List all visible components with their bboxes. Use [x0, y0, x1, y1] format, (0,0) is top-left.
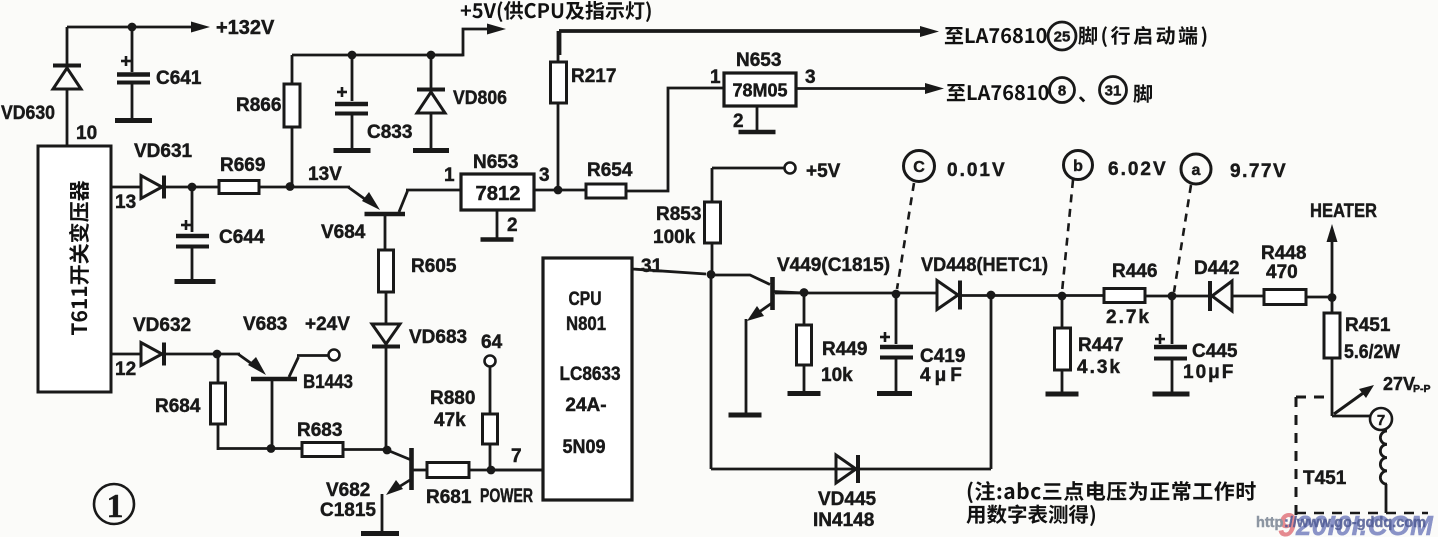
- label C641: [156, 68, 202, 89]
- label R669: [220, 155, 265, 176]
- label C1815 (V682): [320, 500, 376, 521]
- svg-text:V449(C1815): V449(C1815): [777, 255, 890, 276]
- svg-text:N801: N801: [566, 314, 606, 335]
- svg-text:+24V: +24V: [305, 314, 350, 335]
- resistor R866: [284, 55, 300, 186]
- svg-text:R853: R853: [656, 204, 701, 225]
- svg-text:R684: R684: [155, 396, 201, 417]
- dashed line b: [1062, 180, 1073, 292]
- svg-text:1: 1: [444, 165, 455, 186]
- label to LA76810 line2: [947, 84, 1049, 101]
- ground C644: [175, 279, 216, 284]
- label R449: [821, 339, 867, 386]
- resistor R217: [551, 31, 567, 190]
- label 0.01V: [947, 160, 1007, 181]
- node junction VD632: [213, 350, 222, 359]
- capacitor C833: [335, 55, 368, 148]
- svg-text:5N09: 5N09: [563, 437, 606, 458]
- svg-text:6.02V: 6.02V: [1108, 159, 1168, 180]
- svg-text:VD806: VD806: [453, 88, 507, 109]
- capacitor C641: [117, 27, 150, 118]
- wire 7812 out: [534, 189, 586, 192]
- svg-text:R683: R683: [297, 420, 342, 441]
- wire R448 out: [1306, 296, 1333, 299]
- transformer T611: [38, 146, 111, 392]
- ground C641: [115, 118, 152, 123]
- resistor R853: [705, 202, 721, 274]
- label N653 (78M05): [736, 50, 781, 71]
- svg-text:N653: N653: [736, 50, 781, 71]
- svg-text:1: 1: [107, 488, 124, 525]
- label R451: [1344, 315, 1400, 363]
- svg-text:10k: 10k: [821, 365, 853, 386]
- node junction VD683/R683/V682: [383, 446, 392, 455]
- resistor R684: [211, 354, 226, 450]
- punct dun: [1079, 96, 1085, 102]
- label C419: [920, 346, 966, 386]
- pin 7 label: [511, 446, 522, 467]
- label C445: [1183, 341, 1238, 383]
- node junction C833 top: [348, 51, 357, 60]
- svg-text:9.77V: 9.77V: [1230, 161, 1287, 182]
- wire VD806 to ground: [430, 113, 433, 148]
- pin 2 ground 78M05: [733, 106, 776, 132]
- label VD683: [409, 327, 467, 348]
- svg-text:R681: R681: [426, 487, 472, 508]
- svg-text:13: 13: [115, 192, 136, 213]
- node junction 7812 out: [554, 186, 563, 195]
- wire feedback bottom: [711, 468, 991, 471]
- svg-text:a: a: [1192, 162, 1201, 179]
- wire VD631 to R669: [164, 186, 219, 189]
- wire 78M05 out to LA76810: [796, 83, 944, 94]
- label R654: [587, 160, 633, 181]
- terminal +24V: [329, 350, 340, 361]
- diode VD448: [937, 281, 960, 310]
- svg-text:C644: C644: [219, 227, 265, 248]
- resistor R605: [379, 250, 394, 324]
- dashed box T451: [1296, 397, 1333, 521]
- svg-text:VD631: VD631: [134, 141, 193, 162]
- wire +5V top rail: [292, 54, 463, 57]
- svg-text:D442: D442: [1194, 258, 1239, 279]
- wire pin 12: [111, 353, 141, 356]
- resistor R449: [797, 293, 812, 392]
- svg-text:CPU: CPU: [569, 289, 602, 310]
- label pin25 (line start): [1078, 26, 1206, 47]
- ground R449: [788, 391, 821, 396]
- svg-text:10: 10: [76, 123, 97, 144]
- svg-text:C419: C419: [920, 346, 965, 367]
- svg-text:31: 31: [1105, 83, 1122, 100]
- label R866: [236, 95, 281, 116]
- svg-text:31: 31: [641, 256, 663, 277]
- label R853: [653, 204, 701, 248]
- svg-text:4.3k: 4.3k: [1077, 357, 1122, 378]
- svg-text:://www.go-gddq.com: ://www.go-gddq.com: [1284, 515, 1426, 531]
- wire V449 collector rail: [775, 292, 937, 295]
- label +24V: [305, 314, 350, 335]
- node junction feedback: [987, 291, 996, 300]
- node circled C: [904, 151, 935, 182]
- label R681: [426, 487, 472, 508]
- svg-text:VD448(HETC1): VD448(HETC1): [921, 255, 1048, 276]
- svg-text:3: 3: [539, 165, 550, 186]
- node junction C419: [892, 290, 901, 299]
- label VD806: [453, 88, 507, 109]
- figure number 1: [94, 484, 134, 525]
- node circled 7 (T451 pin): [1370, 408, 1392, 430]
- svg-text:C641: C641: [156, 68, 202, 89]
- svg-text:7812: 7812: [476, 183, 521, 205]
- label D442: [1194, 258, 1239, 279]
- transistor V682: [382, 448, 427, 532]
- ground C445: [1153, 392, 1190, 397]
- pin 13 label: [115, 192, 136, 213]
- svg-text:R880: R880: [430, 388, 475, 409]
- wire VD632 out: [164, 353, 240, 356]
- dashed line C: [897, 183, 914, 289]
- resistor R446: [1104, 289, 1145, 303]
- svg-text:R449: R449: [822, 339, 867, 360]
- svg-text:100k: 100k: [653, 227, 696, 248]
- svg-text:P-P: P-P: [1413, 383, 1431, 395]
- label R605: [411, 256, 457, 277]
- wire VD630 top: [66, 27, 69, 66]
- label V449(C1815): [777, 255, 890, 276]
- wire base rail V683: [218, 447, 302, 450]
- resistor R681: [427, 463, 469, 478]
- svg-text:R669: R669: [220, 155, 265, 176]
- wire feedback down: [710, 274, 713, 469]
- label +5V: [806, 161, 841, 182]
- svg-text:V684: V684: [321, 222, 366, 243]
- wire 13V rail: [259, 186, 350, 189]
- svg-text:N653: N653: [473, 152, 518, 173]
- node circled 25: [1048, 22, 1076, 50]
- label 27Vp-p: [1383, 374, 1431, 395]
- node junction V683 base: [267, 444, 276, 453]
- capacitor C445: [1154, 296, 1187, 392]
- wire R446 out: [1145, 295, 1210, 298]
- ground V682: [361, 531, 399, 536]
- ground C419: [877, 391, 912, 396]
- svg-text:VD632: VD632: [133, 315, 191, 336]
- node junction R447: [1058, 292, 1067, 301]
- node circled a: [1181, 154, 1211, 184]
- svg-text:R446: R446: [1112, 261, 1157, 282]
- wire to T451 pin7: [1332, 415, 1370, 418]
- terminal +5V: [712, 163, 796, 203]
- watermark url: [1256, 515, 1426, 531]
- label VD448(HETC1): [921, 255, 1048, 276]
- node junction VD806 top: [427, 51, 436, 60]
- svg-text:0.01V: 0.01V: [947, 160, 1007, 181]
- wire +132V rail: [67, 22, 210, 33]
- svg-text:b: b: [1073, 158, 1083, 175]
- svg-text:POWER: POWER: [480, 486, 533, 507]
- pin 7 wire: [491, 469, 543, 472]
- ground R447: [1046, 392, 1079, 397]
- svg-text:V682: V682: [326, 480, 370, 501]
- svg-text:7: 7: [1377, 412, 1385, 429]
- label POWER: [480, 486, 533, 507]
- label R683: [297, 420, 342, 441]
- svg-text:V683: V683: [243, 314, 287, 335]
- svg-text:5.6/2W: 5.6/2W: [1344, 342, 1400, 363]
- label T451: [1303, 468, 1347, 489]
- pin 12 label: [115, 359, 136, 380]
- svg-text:R451: R451: [1345, 315, 1391, 336]
- wire VD683 to V682 collector: [385, 348, 388, 450]
- pin 3 label 7812: [539, 165, 550, 186]
- resistor R880: [483, 367, 498, 470]
- svg-text:2: 2: [507, 215, 518, 236]
- svg-text:LC8633: LC8633: [560, 364, 621, 385]
- dashed box bottom: [1296, 512, 1428, 515]
- label R880: [430, 388, 475, 431]
- ground V449: [729, 413, 762, 418]
- svg-text:470: 470: [1266, 262, 1298, 283]
- label R217: [571, 66, 616, 87]
- node junction C641 top: [128, 23, 137, 32]
- svg-text:2.7k: 2.7k: [1106, 307, 1151, 328]
- svg-text:C1815: C1815: [320, 500, 376, 521]
- node junction 13V: [286, 182, 295, 191]
- diode VD445: [836, 455, 858, 483]
- terminal 64: [481, 332, 503, 367]
- svg-text:VD445: VD445: [818, 489, 877, 510]
- label R448: [1261, 243, 1306, 283]
- wire R683 to node: [343, 448, 387, 451]
- svg-text:R448: R448: [1261, 243, 1306, 264]
- label note line1: [968, 481, 1256, 503]
- pin 1 label 78M05: [710, 67, 721, 88]
- label N653 (7812): [473, 152, 518, 173]
- node circled 8: [1050, 78, 1075, 103]
- wire VD630 to transformer pin 10: [66, 89, 69, 146]
- ground C833: [334, 148, 371, 153]
- resistor R669: [219, 181, 259, 194]
- svg-text:47k: 47k: [434, 410, 466, 431]
- label C644: [219, 227, 265, 248]
- svg-text:R866: R866: [236, 95, 281, 116]
- svg-text:B1443: B1443: [303, 372, 353, 393]
- capacitor C644: [176, 187, 209, 279]
- pin 1 label 7812: [444, 165, 455, 186]
- svg-text:HEATER: HEATER: [1310, 201, 1377, 222]
- label to LA76810 line1: [945, 27, 1047, 44]
- label V683: [243, 314, 287, 335]
- label +5V(for CPU and indicator): [461, 1, 651, 22]
- dashed line a: [1174, 185, 1191, 292]
- capacitor C419: [880, 294, 913, 392]
- svg-text:4μF: 4μF: [920, 365, 966, 386]
- svg-text:C: C: [913, 159, 925, 176]
- label pin (line2): [1133, 84, 1152, 103]
- diode VD631: [141, 176, 164, 199]
- svg-text:VD630: VD630: [1, 103, 55, 124]
- variable arrow 27Vpp: [1334, 385, 1374, 414]
- label HEATER: [1310, 201, 1377, 222]
- svg-text:+5V: +5V: [806, 161, 841, 182]
- wire VD448 out rail: [961, 294, 1104, 297]
- diode VD683: [372, 324, 400, 347]
- label 13V: [308, 164, 342, 185]
- resistor R448: [1264, 290, 1306, 305]
- label R446: [1106, 261, 1157, 328]
- svg-text:7: 7: [511, 446, 522, 467]
- wire feedback up: [990, 295, 993, 469]
- svg-text:R217: R217: [571, 66, 616, 87]
- svg-text:8: 8: [1058, 83, 1066, 100]
- node junction C445: [1168, 292, 1177, 301]
- resistor R683: [302, 443, 343, 457]
- svg-text:13V: 13V: [308, 164, 342, 185]
- label 9.77V: [1230, 161, 1287, 182]
- svg-text:http: http: [1256, 515, 1284, 531]
- transistor V449: [711, 275, 804, 413]
- label CPU texts: [560, 289, 621, 458]
- regulator U-7812 N653: [461, 174, 534, 210]
- node circled 31: [1100, 77, 1127, 104]
- label V684: [321, 222, 366, 243]
- svg-text:VD683: VD683: [409, 327, 467, 348]
- wire D442 to R448: [1232, 295, 1264, 298]
- svg-text:64: 64: [481, 332, 503, 353]
- svg-text:3: 3: [805, 67, 816, 88]
- diode VD630: [53, 66, 81, 90]
- resistor R447: [1055, 296, 1071, 392]
- label VD630: [1, 103, 55, 124]
- svg-text:78M05: 78M05: [733, 81, 788, 101]
- node junction pin7/R880: [487, 466, 496, 475]
- svg-text:R605: R605: [411, 256, 457, 277]
- svg-text:IN4148: IN4148: [813, 510, 874, 531]
- svg-text:T451: T451: [1303, 468, 1347, 489]
- label VD631: [134, 141, 193, 162]
- label +132V: [216, 17, 275, 39]
- svg-text:C445: C445: [1192, 341, 1238, 362]
- wire pin 13: [111, 186, 141, 189]
- pin 2 ground 7812: [481, 211, 518, 240]
- pin 10 label: [76, 123, 97, 144]
- node junction pin31/R853: [707, 270, 716, 279]
- svg-text:24A-: 24A-: [565, 395, 606, 416]
- svg-text:R654: R654: [587, 160, 633, 181]
- wire HEATER arrow: [1327, 224, 1338, 297]
- label C833: [367, 122, 412, 143]
- svg-text:25: 25: [1054, 29, 1071, 46]
- inductor T451 winding: [1380, 431, 1387, 513]
- svg-text:C833: C833: [367, 122, 412, 143]
- zener VD806: [417, 55, 445, 113]
- label note line2: [967, 504, 1096, 526]
- resistor R451: [1324, 297, 1340, 416]
- wire rail to LA76810 pin25: [559, 26, 939, 55]
- node junction R449: [800, 288, 809, 297]
- node circled b: [1064, 151, 1093, 180]
- label R684: [155, 396, 201, 417]
- svg-text:+132V: +132V: [216, 17, 275, 39]
- diode D442: [1210, 281, 1232, 311]
- ground VD806: [413, 148, 449, 153]
- svg-text:27V: 27V: [1383, 374, 1415, 394]
- wire CPU pin31: [632, 269, 706, 274]
- label R447: [1077, 335, 1123, 378]
- regulator U-78M05 N653: [724, 73, 796, 106]
- svg-text:1: 1: [710, 67, 721, 88]
- label V682: [326, 480, 370, 501]
- svg-text:10μF: 10μF: [1183, 362, 1235, 383]
- watermark logo: [1278, 507, 1434, 537]
- transistor V683: [238, 354, 329, 449]
- diode VD632: [141, 343, 164, 366]
- node junction C644: [188, 183, 197, 192]
- pin 31 label: [641, 256, 663, 277]
- label VD632: [133, 315, 191, 336]
- svg-text:2: 2: [733, 111, 744, 132]
- wire R681 to pin7: [469, 469, 543, 472]
- resistor R654: [586, 184, 626, 198]
- ic CPU N801: [543, 258, 632, 500]
- svg-text:R447: R447: [1078, 335, 1123, 356]
- pin 3 label 78M05: [805, 67, 816, 88]
- transistor V684: [348, 187, 461, 250]
- wire R654 to 78M05: [626, 88, 724, 191]
- label T611: [69, 181, 89, 335]
- wire +5V arrow: [431, 24, 506, 56]
- label 6.02V: [1108, 159, 1168, 180]
- label VD445: [813, 489, 877, 531]
- label B1443: [303, 372, 353, 393]
- node junction HEATER: [1328, 293, 1337, 302]
- svg-text:12: 12: [115, 359, 136, 380]
